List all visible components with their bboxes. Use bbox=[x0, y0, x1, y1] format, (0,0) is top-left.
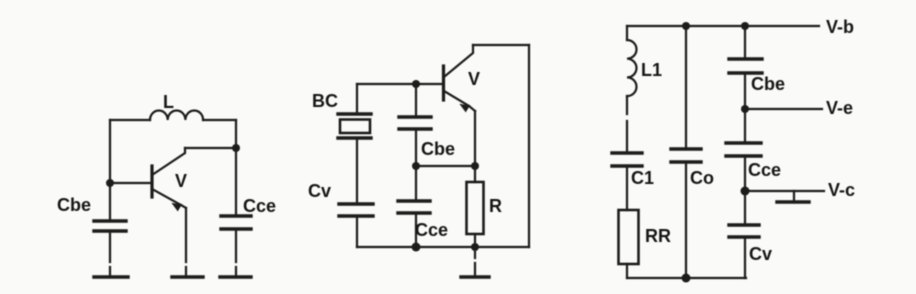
wire bbox=[356, 84, 358, 114]
wire bbox=[473, 44, 529, 46]
wire bbox=[744, 73, 746, 109]
wire bbox=[415, 166, 417, 201]
node bbox=[682, 274, 691, 283]
crystal BC bbox=[338, 114, 371, 138]
capacitor Cce bbox=[398, 201, 430, 213]
wire bbox=[627, 277, 746, 279]
wire bbox=[685, 26, 687, 149]
capacitor Cv bbox=[729, 225, 759, 237]
svg-text:Cce: Cce bbox=[243, 196, 276, 216]
wire bbox=[474, 234, 476, 247]
wire bbox=[626, 96, 628, 153]
svg-text:Co: Co bbox=[690, 168, 714, 188]
wire bbox=[745, 190, 824, 192]
wire bbox=[626, 264, 628, 278]
svg-text:V-c: V-c bbox=[828, 180, 855, 200]
wire bbox=[185, 147, 236, 149]
wire bbox=[626, 166, 628, 210]
ground bbox=[777, 191, 809, 202]
svg-text:V: V bbox=[175, 171, 187, 191]
svg-text:Cce: Cce bbox=[748, 160, 781, 180]
svg-text:R: R bbox=[489, 196, 502, 216]
svg-text:Cbe: Cbe bbox=[57, 195, 91, 215]
node bbox=[106, 179, 114, 187]
svg-text:Cce: Cce bbox=[415, 220, 448, 240]
capacitor Cbe bbox=[729, 59, 762, 73]
wire bbox=[685, 162, 687, 278]
resistor R bbox=[467, 182, 484, 234]
wire bbox=[744, 26, 746, 59]
capacitor Cbe bbox=[399, 117, 431, 129]
svg-text:V: V bbox=[468, 69, 480, 89]
wire bbox=[185, 208, 187, 276]
wire bbox=[235, 148, 237, 216]
wire bbox=[109, 183, 111, 221]
node bbox=[232, 144, 240, 152]
node bbox=[741, 187, 750, 196]
wire bbox=[474, 111, 476, 166]
svg-text:Cv: Cv bbox=[308, 181, 331, 201]
wire bbox=[109, 120, 111, 183]
node bbox=[412, 243, 421, 252]
wire bbox=[744, 191, 746, 225]
wire bbox=[110, 119, 150, 121]
capacitor Co bbox=[671, 149, 701, 162]
capacitor C1 bbox=[612, 153, 642, 166]
ground bbox=[220, 275, 251, 278]
wire bbox=[109, 231, 111, 276]
wire bbox=[415, 213, 417, 247]
node bbox=[412, 80, 420, 88]
svg-text:BC: BC bbox=[312, 91, 338, 111]
wire bbox=[415, 84, 417, 117]
ground bbox=[461, 250, 489, 277]
node bbox=[682, 22, 690, 30]
wire bbox=[203, 119, 236, 121]
ground bbox=[172, 275, 203, 278]
wire bbox=[357, 246, 529, 248]
wire bbox=[416, 165, 475, 167]
wire bbox=[415, 129, 417, 166]
wire bbox=[744, 237, 746, 278]
wire bbox=[110, 182, 151, 184]
node bbox=[412, 162, 420, 170]
capacitor Cce bbox=[726, 143, 761, 156]
svg-text:Cbe: Cbe bbox=[421, 139, 455, 159]
wire bbox=[744, 109, 746, 143]
svg-text:L: L bbox=[163, 92, 174, 112]
node bbox=[471, 162, 479, 170]
svg-text:RR: RR bbox=[645, 226, 671, 246]
wire bbox=[357, 83, 443, 85]
wire bbox=[627, 25, 819, 27]
capacitor Cce bbox=[221, 216, 251, 229]
node bbox=[741, 105, 749, 113]
wire bbox=[356, 138, 358, 204]
node bbox=[741, 22, 749, 30]
ground bbox=[94, 275, 128, 278]
wire bbox=[626, 26, 628, 40]
svg-text:C1: C1 bbox=[631, 168, 654, 188]
transistor V bbox=[152, 148, 186, 211]
inductor L bbox=[150, 111, 203, 120]
wire bbox=[474, 166, 476, 182]
capacitor Cv bbox=[339, 204, 373, 216]
wire bbox=[744, 156, 746, 191]
wire bbox=[235, 229, 237, 276]
node bbox=[471, 243, 479, 251]
wire bbox=[356, 216, 358, 247]
inductor L1 bbox=[627, 40, 637, 96]
resistor RR bbox=[619, 210, 639, 264]
wire bbox=[235, 120, 237, 148]
wire bbox=[528, 45, 530, 247]
capacitor Cbe bbox=[94, 221, 126, 231]
svg-text:Cv: Cv bbox=[749, 244, 772, 264]
transistor V bbox=[444, 45, 476, 112]
svg-text:V-e: V-e bbox=[826, 98, 853, 118]
wire bbox=[745, 108, 822, 110]
svg-text:Cbe: Cbe bbox=[751, 74, 785, 94]
svg-text:L1: L1 bbox=[641, 60, 662, 80]
svg-text:V-b: V-b bbox=[826, 17, 854, 37]
